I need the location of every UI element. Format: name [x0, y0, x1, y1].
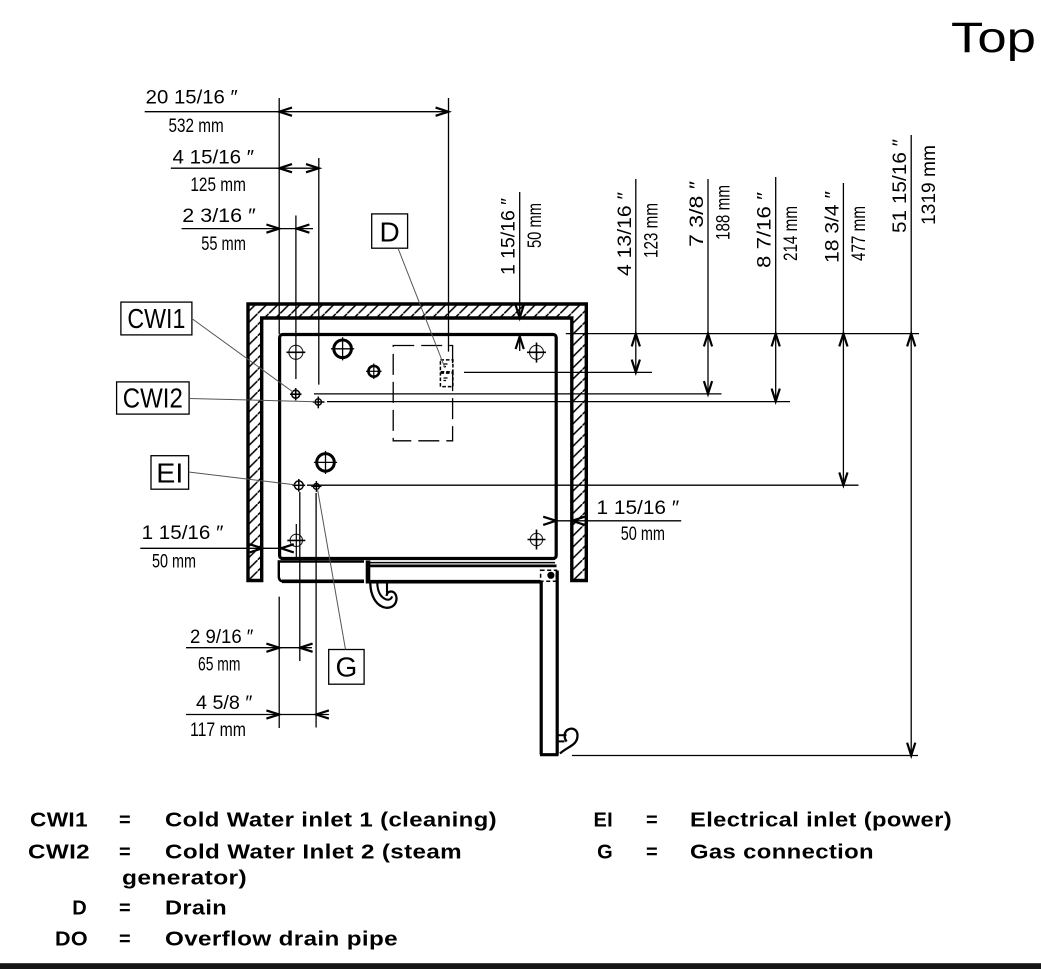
svg-text:7 3/8 ″: 7 3/8 ″	[687, 181, 708, 247]
dimension 65mm (2 9/16")	[186, 644, 313, 652]
svg-text:=: =	[119, 898, 131, 920]
svg-text:1319 mm: 1319 mm	[919, 145, 940, 225]
feature line drain level 123mm	[464, 371, 652, 373]
bold knockout circle A (top)	[331, 337, 354, 360]
svg-text:=: =	[119, 929, 131, 951]
svg-text:Electrical inlet (power): Electrical inlet (power)	[690, 810, 952, 832]
extension line x=299.8 bottom	[299, 492, 301, 661]
feature line CWI2 level 214mm	[327, 401, 790, 403]
dimension 55mm (2 3/16")	[182, 225, 313, 233]
svg-text:generator): generator)	[122, 868, 247, 890]
svg-text:51 15/16 ″: 51 15/16 ″	[890, 139, 911, 233]
vertical dimension 50mm top (1 15/16")	[516, 192, 524, 351]
svg-text:55 mm: 55 mm	[201, 234, 246, 255]
svg-text:=: =	[119, 810, 131, 832]
wall hatched U-band	[248, 304, 586, 581]
fastening point top-left	[287, 345, 306, 359]
label box D	[372, 214, 408, 248]
svg-text:CWI1: CWI1	[30, 810, 88, 832]
tray right-end dashed box with dot	[541, 570, 557, 581]
drain D symbol (two small dashed squares)	[440, 360, 453, 387]
svg-text:2 9/16 ″: 2 9/16 ″	[190, 627, 254, 648]
vertical dimension 188mm (7 3/8")	[704, 179, 712, 394]
dimension 117mm (4 5/8")	[186, 710, 329, 718]
bottom black bar	[0, 963, 1041, 969]
label box CWI2	[117, 382, 190, 414]
svg-text:1 15/16 ″: 1 15/16 ″	[499, 198, 520, 275]
reference line appliance top (right side)	[566, 333, 919, 335]
feature line EI level 477mm	[307, 484, 859, 486]
svg-text:CWI2: CWI2	[123, 383, 183, 414]
extension line x=295.9	[295, 216, 297, 380]
G connection symbol	[311, 481, 321, 492]
extension line x=318.8	[318, 158, 320, 385]
leader D	[398, 248, 445, 368]
dimension 532mm (20 15/16")	[145, 108, 449, 116]
svg-text:=: =	[646, 810, 658, 832]
svg-text:Cold Water Inlet 2 (steam: Cold Water Inlet 2 (steam	[165, 842, 462, 864]
extension line x=316.1 bottom	[315, 493, 317, 728]
svg-text:=: =	[119, 842, 131, 864]
CWI1 connection symbol	[290, 388, 302, 400]
svg-text:477 mm: 477 mm	[849, 206, 870, 261]
extension line x=279.2 bottom	[278, 597, 280, 728]
dimension 125mm (4 15/16")	[171, 164, 319, 172]
overflow drain pipe DO (left hook)	[370, 583, 396, 608]
svg-text:1 15/16 ″: 1 15/16 ″	[597, 498, 680, 519]
fastening point top-right	[527, 343, 546, 363]
svg-text:18 3/4 ″: 18 3/4 ″	[822, 191, 843, 263]
feature line pipe bottom 1319mm	[572, 755, 918, 757]
svg-text:214 mm: 214 mm	[781, 206, 802, 261]
svg-text:Cold Water inlet 1 (cleaning): Cold Water inlet 1 (cleaning)	[165, 810, 497, 832]
svg-text:=: =	[646, 842, 658, 864]
svg-text:4 5/8 ″: 4 5/8 ″	[196, 693, 253, 714]
leader CWI1	[192, 319, 293, 393]
svg-text:532 mm: 532 mm	[169, 116, 224, 137]
svg-text:CWI1: CWI1	[127, 303, 185, 334]
svg-text:Top: Top	[951, 14, 1036, 62]
svg-text:G: G	[597, 842, 613, 864]
svg-text:50 mm: 50 mm	[152, 552, 196, 573]
svg-text:125 mm: 125 mm	[190, 175, 246, 196]
svg-text:20 15/16 ″: 20 15/16 ″	[146, 88, 238, 109]
fastening point bottom-left	[287, 524, 305, 557]
svg-text:1 15/16 ″: 1 15/16 ″	[142, 523, 224, 544]
bold knockout circle C (middle)	[314, 451, 337, 474]
label box CWI1	[121, 302, 192, 335]
vertical dimension 123mm (4 13/16")	[632, 179, 640, 372]
down pipe on right	[540, 571, 559, 755]
vertical dimension 1319mm (51 15/16")	[907, 135, 915, 756]
extension line x=448.5	[448, 98, 450, 352]
svg-text:Gas connection: Gas connection	[690, 842, 874, 864]
svg-text:CWI2: CWI2	[28, 842, 90, 864]
dimension 50mm right (1 15/16")	[543, 517, 681, 525]
leader CWI2	[189, 399, 315, 402]
svg-text:4 15/16 ″: 4 15/16 ″	[173, 147, 255, 168]
extension line x=279.2 top	[278, 98, 280, 334]
dimension 50mm left (1 15/16")	[140, 544, 293, 552]
drain tray under appliance	[367, 561, 557, 584]
leader EI	[189, 472, 295, 485]
label box G	[329, 650, 364, 685]
svg-text:Overflow drain pipe: Overflow drain pipe	[165, 929, 398, 951]
appliance top-view rectangle	[280, 335, 557, 559]
EI connection symbol	[293, 479, 306, 492]
pipe bottom hook	[559, 729, 578, 754]
svg-text:D: D	[379, 217, 399, 248]
svg-text:G: G	[336, 652, 358, 683]
bottom-left bar (door)	[279, 562, 364, 582]
fastening point bottom-right	[528, 530, 546, 550]
svg-text:8 7/16 ″: 8 7/16 ″	[755, 192, 776, 268]
svg-text:50 mm: 50 mm	[621, 524, 665, 545]
dashed rectangle (drain zone)	[393, 346, 452, 441]
label box EI	[151, 456, 189, 490]
bold knockout circle B (small)	[366, 364, 382, 380]
svg-text:188 mm: 188 mm	[714, 185, 735, 240]
svg-text:EI: EI	[594, 810, 614, 832]
svg-text:4 13/16 ″: 4 13/16 ″	[615, 192, 636, 276]
CWI2 connection symbol	[313, 397, 325, 409]
svg-text:123 mm: 123 mm	[641, 203, 662, 258]
svg-text:50 mm: 50 mm	[525, 203, 546, 248]
svg-text:Drain: Drain	[165, 898, 227, 920]
svg-text:117 mm: 117 mm	[190, 720, 246, 741]
leader G	[318, 489, 346, 650]
svg-text:2 3/16 ″: 2 3/16 ″	[182, 206, 256, 227]
svg-text:D: D	[72, 898, 87, 920]
svg-text:65 mm: 65 mm	[198, 655, 240, 676]
svg-text:EI: EI	[156, 458, 183, 489]
feature line CWI1 level 188mm	[314, 393, 722, 395]
svg-text:DO: DO	[55, 929, 88, 951]
vertical dimension 214mm (8 7/16")	[772, 177, 780, 401]
vertical dimension 477mm (18 3/4")	[839, 183, 847, 485]
